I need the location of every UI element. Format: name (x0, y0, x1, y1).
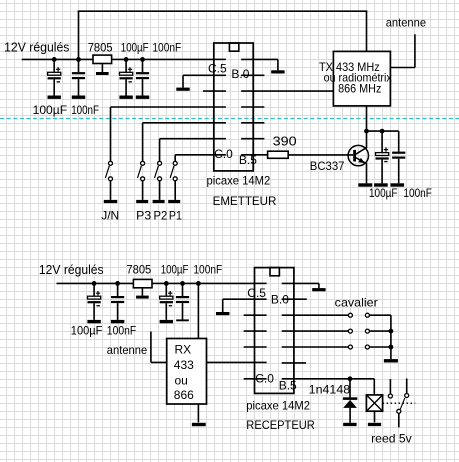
svg-text:EMETTEUR: EMETTEUR (213, 194, 277, 208)
pin U3 left 5 stub (244, 346, 267, 348)
label P2 (154, 209, 168, 223)
resistor R1 390 (268, 135, 297, 159)
svg-text:B.0: B.0 (231, 67, 249, 81)
label antenne (receiver) (107, 343, 148, 357)
ground (U3 0V) (312, 288, 325, 291)
wire J/N input to pin 4 (111, 107, 226, 161)
label C.0 (U1) (214, 147, 233, 161)
label B.5 (U3) (279, 378, 297, 392)
pin U1 right 6 stub (241, 138, 264, 140)
capacitor C6 100nF (at TX) (392, 131, 405, 183)
node rail junction dots (52, 57, 145, 62)
wire U3 B.5 (right pin 7) to diode and relay (282, 376, 375, 397)
wire U3 pin4 to jumper 2 (282, 330, 349, 332)
pin U1 0V (right pin 1) wire to ground (241, 59, 278, 70)
ground (C7) (87, 320, 100, 323)
ground (C6) (391, 183, 405, 186)
regulator U4 7805 (receiver) (126, 262, 152, 295)
capacitor C7 100µF electrolytic (receiver input) (88, 283, 101, 320)
op IC U3 picaxe 14M2 (receiver) body (255, 268, 294, 394)
ground (K1) (368, 423, 381, 426)
svg-text:C.0: C.0 (214, 147, 233, 161)
svg-text:100nF: 100nF (403, 186, 432, 200)
wire P1 input to pin 7 C.0 (175, 155, 226, 161)
pin U3 C.5 (left pin 2) + wire to ground (223, 299, 267, 312)
label 100µF 100nF (emitter bottom caption) (33, 103, 99, 117)
label B.5 (U1) (239, 153, 257, 167)
wire U3 pin5 to jumper 3 (282, 346, 349, 348)
node collector junction (364, 129, 399, 134)
svg-text:433: 433 (174, 358, 194, 372)
pin U3 right 6 stub (282, 362, 306, 364)
jumper row 2 (348, 329, 391, 333)
label 12V régulés (receiver supply) (39, 263, 104, 277)
transistor Q1 BC337 (348, 145, 368, 183)
pin U1 right 5 stub (241, 122, 264, 124)
capacitor C5 100µF electrolytic (at TX) (376, 131, 389, 183)
svg-text:B.5: B.5 (239, 153, 257, 167)
ground (C8) (111, 320, 124, 323)
pin U3 B.0 (right pin 2) stub (282, 298, 307, 300)
capacitor C9 100µF electrolytic (receiver 5V) (160, 262, 189, 320)
capacitor C1 100µF electrolytic (emitter input) (48, 59, 61, 95)
svg-text:B.5: B.5 (279, 378, 297, 392)
label reed 5v (371, 432, 412, 446)
diode D1 1n4148 (343, 397, 357, 423)
ground (C9) (160, 320, 173, 323)
svg-text:reed 5v: reed 5v (371, 432, 412, 446)
relay coil K1 (box with X) (366, 395, 382, 422)
switch P1 (170, 161, 177, 200)
switch P3 (138, 161, 145, 200)
label EMETTEUR (213, 194, 277, 208)
wire RX module to ground (197, 404, 199, 422)
svg-text:390: 390 (273, 135, 297, 149)
module RX 433 (167, 339, 207, 405)
label C.5 (U1) (208, 62, 227, 76)
ground (RX) (192, 423, 206, 426)
svg-text:100nF: 100nF (152, 40, 181, 54)
svg-text:BC337: BC337 (310, 159, 345, 173)
wire P3 input to pin 5 (143, 123, 226, 161)
label C.5 (U3) (247, 286, 266, 300)
svg-text:100nF: 100nF (71, 103, 99, 117)
wire antenna (receiver) (151, 332, 167, 363)
capacitor C8 100nF (receiver input) (111, 283, 124, 320)
separator dashed line (0, 118, 459, 120)
svg-text:100µF: 100µF (121, 40, 149, 54)
ground (C2) (72, 96, 85, 99)
pin U3 left 3 stub (244, 314, 267, 316)
svg-text:C.5: C.5 (208, 62, 227, 76)
pin U1 B.0 (right pin 2) stub (241, 74, 264, 76)
svg-text:100µF: 100µF (71, 323, 103, 337)
svg-text:picaxe 14M2: picaxe 14M2 (207, 173, 271, 187)
svg-text:7805: 7805 (126, 262, 151, 276)
ground (D1) (343, 423, 356, 426)
label B.0 (U1) (231, 67, 249, 81)
ground (C5) (374, 183, 388, 186)
wire U3 pin3 to jumper 1 (282, 314, 349, 316)
label antenne (emitter) (386, 16, 427, 30)
svg-text:antenne: antenne (107, 343, 148, 357)
pin U3 left 4 stub (244, 330, 267, 332)
ground (P3) (136, 200, 148, 203)
svg-text:P3: P3 (136, 209, 151, 223)
pin U1 C.5 (left pin 2) + wire to ground (183, 75, 226, 87)
label RECEPTEUR (246, 418, 315, 432)
capacitor C10 100nF (receiver 5V) (176, 262, 222, 320)
jumper row 1 (348, 313, 391, 317)
wire V+ rail (receiver) (57, 282, 255, 284)
svg-text:P2: P2 (154, 209, 168, 223)
svg-text:100µF: 100µF (161, 262, 189, 276)
svg-text:ou: ou (175, 374, 188, 388)
ground (7805 emitter) (96, 72, 109, 75)
svg-text:RECEPTEUR: RECEPTEUR (246, 418, 315, 432)
label cavalier (335, 296, 378, 310)
svg-text:1n4148: 1n4148 (309, 383, 351, 397)
capacitor C2 100nF (emitter input) (72, 59, 85, 95)
switch J/N (105, 161, 112, 200)
ground (P1) (168, 200, 180, 203)
op IC U1 picaxe 14M2 (emitter) body (214, 43, 253, 171)
pin U1.1 V+ (left, into rail) (214, 58, 226, 60)
wire V+ rail (emitter) (22, 58, 214, 60)
svg-text:antenne: antenne (386, 16, 427, 30)
label 100µF 100nF (TX caps) (369, 186, 432, 200)
ground (J/N) (104, 200, 117, 203)
wire rail to RX module (197, 283, 199, 338)
ground (P2) (153, 200, 165, 203)
wire V+ top feed to TX module (78, 11, 368, 59)
ground (jumper bus) (384, 359, 398, 362)
node rail junction dots (receiver) (92, 281, 201, 286)
pin U1 left 3 stub (203, 90, 226, 92)
svg-text:RX: RX (175, 343, 192, 357)
svg-text:picaxe 14M2: picaxe 14M2 (246, 398, 310, 412)
ground (Q1 emitter) (358, 183, 372, 186)
svg-text:12V régulés: 12V régulés (4, 41, 69, 55)
svg-text:C.5: C.5 (247, 286, 266, 300)
svg-text:cavalier: cavalier (335, 296, 378, 310)
svg-text:J/N: J/N (101, 209, 119, 223)
svg-text:866: 866 (174, 388, 194, 402)
ground (C3) (119, 96, 132, 99)
ground (C4) (136, 96, 149, 99)
label J/N (101, 209, 119, 223)
wire jumper common bus (389, 315, 394, 359)
pin U3.1 V+ (left, into rail) (255, 282, 267, 284)
wire U1 pin3 to TX module (241, 90, 333, 92)
label P3 (136, 209, 151, 223)
wire antenna (emitter) (390, 34, 415, 67)
label 12V régulés (emitter supply) (4, 41, 69, 55)
label picaxe 14M2 (U1) (207, 173, 271, 187)
svg-text:P1: P1 (169, 209, 182, 223)
label 100µF 100nF (receiver bottom caption) (71, 323, 136, 337)
svg-text:100nF: 100nF (193, 262, 222, 276)
capacitor C4 100nF (emitter 5V) (136, 40, 181, 95)
svg-text:7805: 7805 (88, 40, 113, 54)
switch reed contact (388, 379, 408, 428)
switch P2 (155, 161, 162, 200)
pin U3 left 7 C.0 stub (244, 378, 267, 380)
pin U3 0V (right pin 1) wire to ground (282, 283, 319, 288)
ground (U1 0V) (271, 70, 284, 73)
ground (U1 C.5 pulldown) (176, 88, 189, 91)
wire P2 input to pin 6 (160, 139, 226, 162)
svg-text:12V régulés: 12V régulés (39, 263, 104, 277)
label B.0 (U3) (271, 293, 289, 307)
svg-text:100nF: 100nF (107, 323, 136, 337)
ground (7805 receiver) (136, 296, 149, 299)
wire TX data/output down to collector node (366, 106, 368, 148)
jumper row 3 (348, 345, 391, 349)
wire RX data out to U3 pin 6 (207, 361, 267, 363)
label BC337 (310, 159, 345, 173)
svg-text:866 MHz: 866 MHz (338, 81, 381, 95)
pin U1 B.5 (right pin 7) wire to resistor (241, 154, 268, 156)
label P1 (169, 209, 182, 223)
label picaxe 14M2 (U3) (246, 398, 310, 412)
ground (C10) (176, 319, 189, 321)
svg-text:B.0: B.0 (271, 293, 289, 307)
label 1n4148 (309, 383, 351, 397)
capacitor C3 100µF electrolytic (emitter 5V) (120, 40, 149, 95)
svg-text:100µF: 100µF (369, 186, 398, 200)
wire mechanical link (dotted) (383, 402, 416, 404)
svg-text:C.0: C.0 (255, 371, 274, 385)
module TX 433 MHz (319, 51, 392, 106)
wire resistor to base (288, 154, 353, 156)
label C.0 (U3) (255, 371, 274, 385)
ground (U3 C.5) (216, 312, 229, 315)
ground (C1) (48, 96, 61, 99)
pin U1 right 4 stub (241, 106, 264, 108)
svg-text:100µF: 100µF (33, 103, 68, 117)
regulator U2 7805 (emitter) (88, 40, 113, 72)
